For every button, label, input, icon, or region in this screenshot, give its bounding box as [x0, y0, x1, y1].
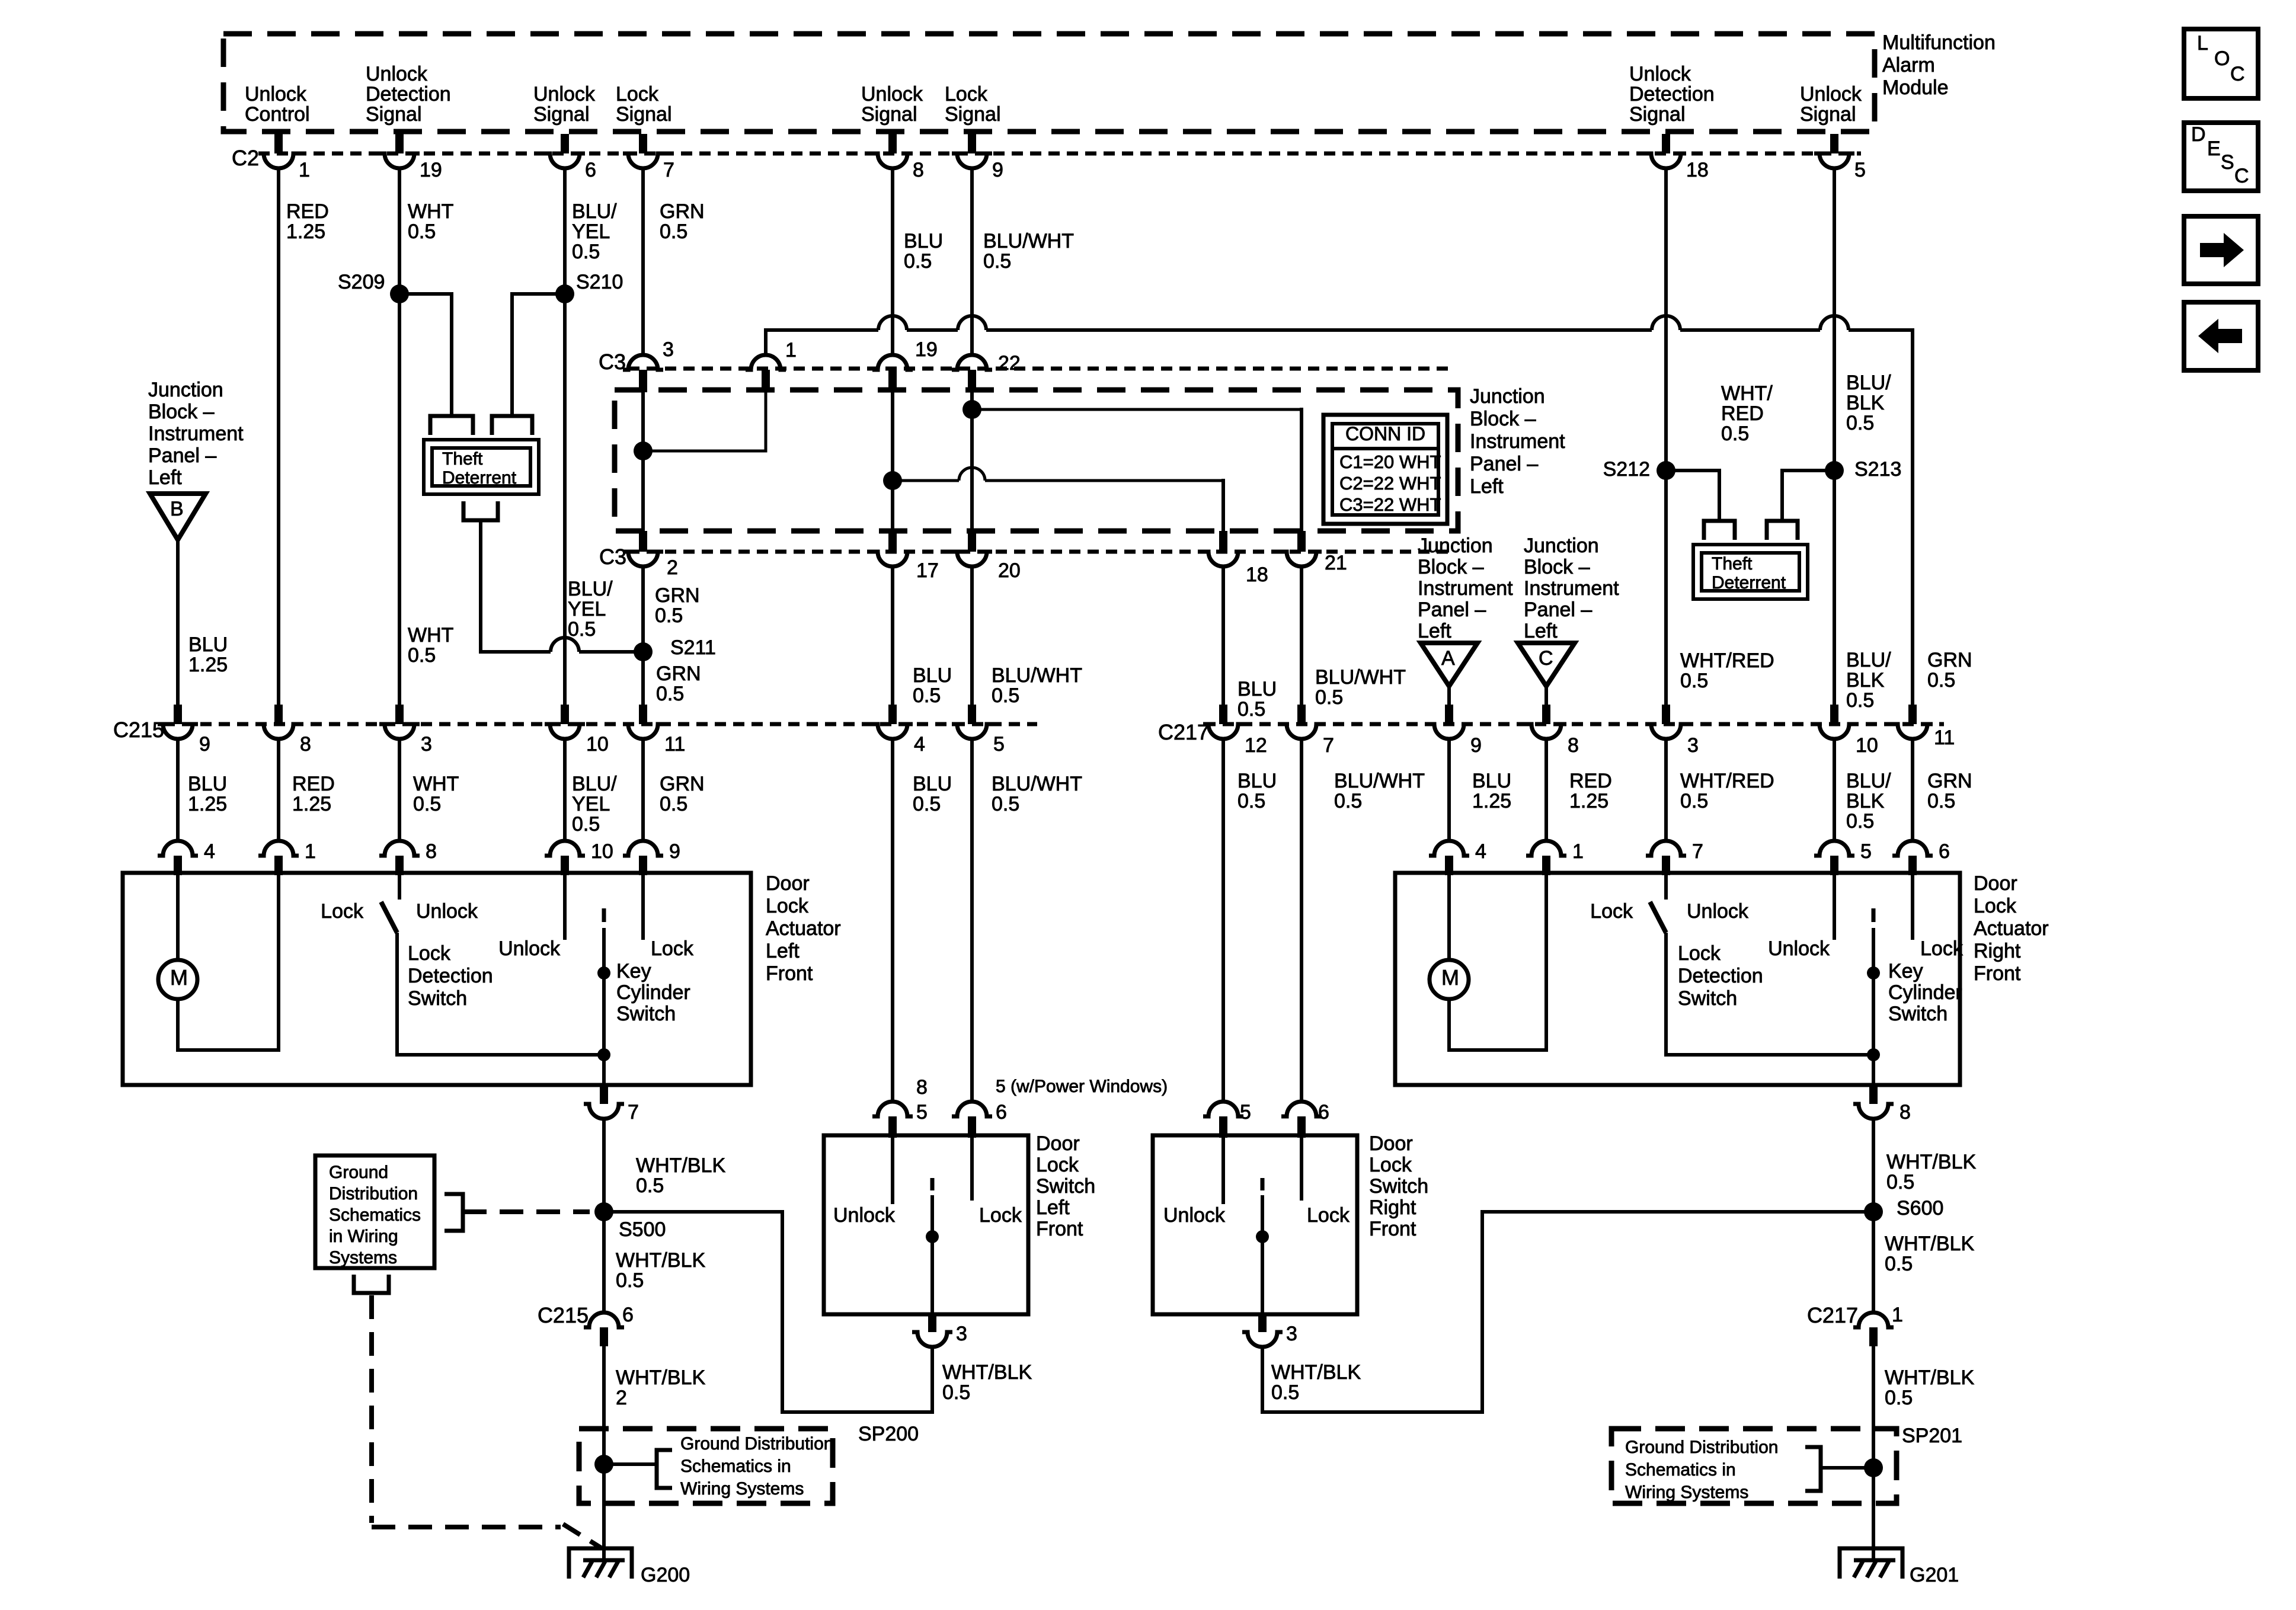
svg-text:C3: C3	[599, 545, 626, 569]
svg-text:3: 3	[1286, 1323, 1297, 1345]
svg-text:Lock: Lock	[1036, 1154, 1079, 1176]
svg-text:SP200: SP200	[858, 1423, 919, 1445]
svg-text:BLU/WHT: BLU/WHT	[1334, 770, 1425, 792]
svg-text:22: 22	[998, 352, 1021, 375]
svg-text:0.5: 0.5	[1237, 698, 1265, 721]
svg-text:0.5: 0.5	[636, 1174, 664, 1197]
connector C2 pin 6	[561, 134, 569, 153]
door lock actuator left front box	[123, 873, 751, 1085]
door lock switch left front box	[824, 1135, 1028, 1314]
svg-text:0.5: 0.5	[660, 793, 687, 815]
svg-text:2: 2	[667, 556, 678, 579]
svg-text:WHT/BLK: WHT/BLK	[1886, 1151, 1976, 1173]
wire BLU/WHT 0.5 to door lock switch R	[1300, 740, 1303, 1101]
svg-text:0.5: 0.5	[1886, 1171, 1914, 1193]
switch L unlock contact stub	[891, 1135, 894, 1204]
svg-text:BLU/: BLU/	[1846, 649, 1891, 671]
wire BLU 0.5 to door lock switch L	[891, 740, 894, 1101]
svg-text:Deterrent: Deterrent	[442, 468, 517, 488]
svg-text:C: C	[1539, 647, 1553, 670]
lock detection switch wire right	[1666, 933, 1873, 1055]
svg-text:0.5: 0.5	[1315, 686, 1343, 709]
svg-text:Door: Door	[1369, 1132, 1413, 1155]
junction dot on BLU/WHT wire	[962, 400, 981, 419]
svg-text:1.25: 1.25	[188, 654, 228, 676]
svg-text:10: 10	[1856, 734, 1878, 757]
connector C217 pin 9	[1445, 705, 1453, 724]
wire GRN inside junction block (pin3 to pin2)	[641, 390, 645, 531]
svg-text:19: 19	[915, 338, 938, 361]
svg-text:6: 6	[622, 1304, 634, 1326]
theft deterrent left bottom bracket	[463, 501, 498, 520]
svg-text:0.5: 0.5	[1846, 689, 1874, 712]
svg-text:A: A	[1441, 647, 1455, 670]
connector row C215 dotted line	[164, 722, 1037, 726]
wire H1 corner down to C3 pin 1	[764, 328, 768, 354]
svg-text:0.5: 0.5	[1237, 790, 1265, 812]
svg-text:Switch: Switch	[408, 987, 467, 1010]
SP200 junction dot	[594, 1455, 613, 1474]
wire WHT/BLK to G200	[602, 1346, 606, 1560]
svg-text:M: M	[170, 965, 188, 990]
connector C217 pin 10	[1830, 705, 1838, 724]
wire BLU/WHT inside junction block (pin22 down)	[970, 390, 974, 531]
svg-text:6: 6	[996, 1101, 1007, 1124]
door lock switch right front box	[1153, 1135, 1357, 1314]
actuator R pin 1 connector	[1526, 841, 1566, 856]
svg-text:WHT/BLK: WHT/BLK	[1885, 1366, 1974, 1389]
svg-text:Block –: Block –	[1524, 556, 1590, 578]
svg-text:3: 3	[421, 733, 432, 756]
svg-text:10: 10	[591, 840, 613, 863]
svg-text:Signal: Signal	[533, 103, 590, 126]
svg-text:G201: G201	[1910, 1564, 1959, 1586]
connector C2 pin 19	[395, 134, 404, 153]
svg-text:0.5: 0.5	[572, 241, 600, 263]
svg-text:5: 5	[993, 733, 1005, 756]
svg-text:Unlock: Unlock	[1163, 1204, 1226, 1227]
theft deterrent right box	[1693, 545, 1808, 599]
svg-text:Block –: Block –	[1418, 556, 1484, 578]
connector C2 pin 7	[639, 134, 647, 153]
svg-text:Actuator: Actuator	[766, 917, 841, 940]
svg-text:Lock: Lock	[1590, 900, 1633, 923]
svg-text:Signal: Signal	[366, 103, 422, 126]
connector C2 pin 18	[1662, 134, 1670, 153]
bump H1 over WHT/RED wire	[1652, 316, 1680, 330]
actuator R pin 4 connector	[1429, 841, 1469, 856]
svg-text:Right: Right	[1974, 940, 2021, 962]
connector C3 pin 2 (bottom row)	[639, 531, 647, 552]
connector C215 pin 3	[395, 705, 404, 724]
svg-text:GRN: GRN	[1927, 649, 1972, 671]
switch R pin 3 connector	[1258, 1314, 1267, 1332]
theft deterrent right bracket 1	[1704, 521, 1735, 540]
svg-text:BLU: BLU	[1237, 770, 1277, 792]
switch L pin 8/5 connector	[872, 1102, 913, 1116]
svg-text:BLU/: BLU/	[572, 200, 617, 223]
svg-text:WHT/RED: WHT/RED	[1680, 770, 1774, 792]
wire BLU/WHT 0.5 (C3 pin20 to C215 pin5)	[970, 567, 974, 705]
switch R pin 6 connector	[1281, 1102, 1322, 1116]
svg-text:17: 17	[916, 559, 939, 582]
svg-text:Detection: Detection	[1678, 965, 1763, 987]
dashed path to G200 (horizontal)	[372, 1525, 561, 1529]
svg-text:S213: S213	[1854, 458, 1901, 481]
theft deterrent left connector bracket 2	[492, 416, 532, 435]
svg-text:3: 3	[663, 338, 674, 361]
svg-text:9: 9	[199, 733, 210, 756]
wire BLU/YEL 0.5 (C2 pin6 to C215 pin10)	[563, 169, 567, 705]
svg-text:1.25: 1.25	[1569, 790, 1609, 812]
svg-text:Module: Module	[1882, 76, 1949, 99]
door lock actuator right front box	[1395, 873, 1960, 1085]
svg-text:BLU: BLU	[913, 664, 952, 687]
svg-text:BLU: BLU	[1472, 770, 1511, 792]
svg-text:WHT/BLK: WHT/BLK	[942, 1361, 1032, 1384]
connector C2 pin 9	[968, 134, 976, 153]
bump H1 over BLU wire	[878, 316, 907, 330]
actuator R pin 7 connector	[1646, 841, 1686, 856]
ground distribution reference box left	[315, 1156, 434, 1268]
connector C217 pin 12	[1219, 705, 1227, 724]
junction dot key cylinder bottom left	[597, 1048, 610, 1061]
wire BLU 1.25 to actuator L pin4	[176, 740, 180, 840]
svg-text:WHT: WHT	[408, 200, 453, 223]
wire S600 down to C217 pin1	[1872, 1212, 1875, 1312]
svg-text:Front: Front	[1974, 962, 2021, 985]
connector C3 pin 3 (top row)	[623, 355, 663, 370]
key cylinder switch right	[1872, 908, 1876, 922]
connector C3 pin 1 (top row)	[746, 355, 786, 370]
dashed link to S500	[463, 1209, 590, 1214]
wire S500 down to C215 pin6	[602, 1212, 606, 1312]
svg-text:0.5: 0.5	[1680, 790, 1708, 812]
svg-text:Door: Door	[766, 872, 810, 895]
svg-text:Control: Control	[245, 103, 310, 126]
motor M left	[158, 960, 197, 999]
svg-text:6: 6	[1939, 840, 1950, 863]
svg-text:Key: Key	[1888, 960, 1923, 982]
svg-text:CONN ID: CONN ID	[1345, 423, 1425, 444]
svg-text:C1=20 WHT: C1=20 WHT	[1339, 452, 1441, 472]
svg-text:WHT/: WHT/	[1721, 382, 1773, 405]
svg-text:Key: Key	[616, 960, 651, 982]
svg-text:Unlock: Unlock	[498, 937, 561, 960]
svg-text:BLK: BLK	[1846, 392, 1885, 414]
svg-text:8: 8	[1568, 734, 1579, 757]
wire RED 1.25 (C2 pin1 to C215 pin8)	[277, 169, 280, 705]
svg-text:Front: Front	[766, 962, 813, 985]
svg-text:BLU/WHT: BLU/WHT	[1315, 666, 1406, 689]
svg-text:0.5: 0.5	[992, 793, 1019, 815]
wire BLU/YEL 0.5 to actuator L pin10	[563, 740, 567, 840]
svg-text:0.5: 0.5	[1846, 810, 1874, 833]
wire WHT 0.5 to actuator L pin8	[398, 740, 401, 840]
svg-text:WHT: WHT	[413, 773, 459, 795]
actuator L pin 9 connector	[623, 841, 663, 856]
wire WHT/BLK 0.5 from switch L pin3	[604, 1212, 932, 1412]
connector row C3 (bottom) dotted line	[628, 550, 1455, 554]
svg-text:8: 8	[916, 1076, 928, 1099]
wire branch S210 to theft deterrent left	[512, 294, 565, 415]
svg-text:Junction: Junction	[1418, 534, 1493, 557]
svg-text:Left: Left	[1470, 475, 1504, 498]
junction dot key cylinder bottom right	[1867, 1048, 1880, 1061]
svg-text:12: 12	[1245, 734, 1267, 757]
connector C217 pin 8	[1542, 705, 1550, 724]
lock detection switch blade left	[381, 902, 397, 933]
svg-text:0.5: 0.5	[913, 684, 941, 707]
svg-text:2: 2	[616, 1387, 627, 1409]
connector C217 pin 3	[1662, 705, 1670, 724]
svg-text:Unlock: Unlock	[833, 1204, 896, 1227]
svg-text:RED: RED	[1569, 770, 1612, 792]
svg-text:Cylinder: Cylinder	[1888, 981, 1962, 1004]
svg-text:1: 1	[1892, 1304, 1903, 1326]
svg-text:M: M	[1441, 965, 1459, 990]
connector C217 pin 7	[1297, 705, 1306, 724]
svg-text:GRN: GRN	[1927, 770, 1972, 792]
wire H2 inside block (to pin 21)	[972, 408, 1302, 411]
svg-text:Switch: Switch	[616, 1003, 676, 1025]
splice S600	[1864, 1202, 1883, 1221]
key cylinder switch left	[602, 908, 606, 922]
svg-text:Switch: Switch	[1369, 1175, 1428, 1198]
svg-text:BLU: BLU	[913, 773, 952, 795]
theft deterrent left box	[424, 440, 539, 494]
svg-text:YEL: YEL	[572, 793, 610, 815]
svg-text:1: 1	[299, 159, 310, 181]
svg-text:BLU/WHT: BLU/WHT	[983, 230, 1074, 252]
svg-text:C3: C3	[599, 350, 626, 374]
svg-text:S500: S500	[619, 1218, 666, 1241]
svg-text:Alarm: Alarm	[1882, 54, 1935, 76]
branch S212 to theft deterrent right	[1666, 470, 1719, 520]
unlock contact stub right (pin 5)	[1833, 873, 1836, 940]
svg-text:9: 9	[669, 840, 680, 863]
svg-text:Detection: Detection	[408, 965, 493, 987]
svg-text:Theft: Theft	[1712, 554, 1753, 574]
svg-text:Panel –: Panel –	[1470, 453, 1538, 475]
lock detection switch stub (pin 7) right	[1664, 873, 1668, 900]
svg-text:3: 3	[956, 1323, 967, 1345]
splice S212	[1657, 461, 1675, 480]
switch L lock contact stub	[970, 1135, 974, 1201]
svg-text:0.5: 0.5	[942, 1381, 970, 1404]
svg-text:Unlock: Unlock	[1800, 83, 1862, 105]
svg-text:4: 4	[914, 733, 925, 756]
svg-text:1.25: 1.25	[188, 793, 227, 815]
connector C215 pin 10	[561, 705, 569, 724]
svg-text:S: S	[2221, 151, 2234, 174]
svg-text:Lock: Lock	[408, 942, 451, 965]
svg-text:Signal: Signal	[1629, 103, 1686, 126]
actuator left pin 7 connector	[602, 1055, 606, 1085]
svg-text:0.5: 0.5	[992, 684, 1019, 707]
connector row C217 dotted line	[1204, 722, 1944, 726]
connector row C3 (top) dotted line	[628, 367, 1455, 371]
motor M right	[1430, 960, 1469, 999]
svg-text:Signal: Signal	[945, 103, 1001, 126]
svg-text:Panel –: Panel –	[1524, 598, 1592, 621]
svg-text:7: 7	[663, 159, 674, 181]
svg-text:8: 8	[1900, 1101, 1911, 1124]
wire H2 corner down to pin 21	[1300, 408, 1303, 531]
svg-text:Instrument: Instrument	[1524, 577, 1619, 600]
svg-text:Signal: Signal	[861, 103, 917, 126]
connector C215 pin 11	[639, 705, 647, 724]
splice S210	[555, 284, 574, 303]
svg-text:1.25: 1.25	[286, 220, 325, 243]
svg-text:Lock: Lock	[979, 1204, 1022, 1227]
svg-text:BLU: BLU	[188, 633, 228, 656]
svg-text:RED: RED	[286, 200, 329, 223]
wire RED 1.25 to actuator R pin1	[1544, 740, 1548, 840]
svg-text:Instrument: Instrument	[1470, 430, 1565, 453]
wire BLU 0.5 to door lock switch R	[1221, 740, 1225, 1101]
splitter SP201 dashed box	[1611, 1429, 1897, 1503]
wire WHT/BLK 0.5 from switch R pin3	[1262, 1212, 1873, 1412]
svg-text:BLU/: BLU/	[572, 773, 617, 795]
ground G201 symbol	[1840, 1548, 1902, 1579]
svg-text:0.5: 0.5	[1680, 670, 1708, 692]
svg-text:WHT/BLK: WHT/BLK	[1271, 1361, 1361, 1384]
junction block dashed box	[615, 390, 1458, 531]
svg-text:Switch: Switch	[1678, 987, 1737, 1010]
svg-text:Junction: Junction	[1470, 385, 1545, 408]
legend left arrow box	[2184, 302, 2258, 370]
branch S213 to theft deterrent right	[1782, 470, 1834, 520]
wire theft deterrent left to S211	[481, 520, 551, 652]
svg-text:RED: RED	[1721, 402, 1764, 425]
horizontal wire H1 (C3 pin1 to C217 pin11 GRN)	[766, 328, 878, 332]
svg-text:Lock: Lock	[766, 895, 809, 917]
svg-text:0.5: 0.5	[413, 793, 441, 815]
svg-text:BLK: BLK	[1846, 790, 1885, 812]
svg-text:GRN: GRN	[655, 584, 700, 607]
CONN ID table outer box	[1323, 415, 1447, 524]
svg-text:Lock: Lock	[1920, 937, 1964, 960]
svg-text:Front: Front	[1369, 1218, 1416, 1240]
legend right arrow box	[2184, 216, 2258, 284]
wire branch S209 to theft deterrent left	[399, 294, 452, 415]
connector C2 pin 1	[274, 134, 283, 153]
svg-text:Left: Left	[766, 940, 800, 962]
svg-text:GRN: GRN	[656, 662, 701, 685]
svg-text:D: D	[2191, 123, 2206, 146]
svg-text:21: 21	[1325, 552, 1347, 574]
switch R arm	[1261, 1178, 1265, 1190]
wire BLU inside junction block (pin19 down)	[891, 390, 894, 531]
svg-text:3: 3	[1687, 734, 1699, 757]
svg-text:Distribution: Distribution	[329, 1184, 418, 1204]
svg-text:Ground Distribution: Ground Distribution	[1625, 1438, 1778, 1457]
svg-text:Junction: Junction	[1524, 534, 1599, 557]
unlock contact stub left (pin 10)	[563, 873, 567, 940]
svg-text:BLU: BLU	[1237, 678, 1277, 700]
svg-text:0.5: 0.5	[1927, 790, 1955, 812]
svg-text:Door: Door	[1974, 872, 2017, 895]
svg-text:20: 20	[998, 559, 1021, 582]
svg-text:Unlock: Unlock	[1768, 937, 1830, 960]
actuator R pin 5 connector	[1814, 841, 1854, 856]
svg-text:C215: C215	[538, 1303, 589, 1327]
svg-text:BLU/WHT: BLU/WHT	[992, 773, 1082, 795]
actuator L pin 1 connector	[258, 841, 299, 856]
lock contact stub right (pin 6)	[1911, 873, 1914, 940]
wire GRN 0.5 (C2 pin7 to C3 pin3)	[641, 169, 645, 354]
svg-text:0.5: 0.5	[1885, 1387, 1913, 1409]
switch R pin 5 connector	[1203, 1102, 1243, 1116]
svg-text:Right: Right	[1369, 1196, 1416, 1219]
svg-text:0.5: 0.5	[656, 683, 684, 705]
svg-text:0.5: 0.5	[408, 644, 436, 667]
svg-text:0.5: 0.5	[616, 1269, 644, 1292]
svg-text:Multifunction: Multifunction	[1882, 31, 1996, 54]
svg-text:E: E	[2207, 137, 2221, 160]
svg-text:BLU: BLU	[188, 773, 227, 795]
wire RED 1.25 to actuator L pin1	[277, 740, 280, 840]
dashed path to G200 (diagonal end)	[563, 1524, 601, 1548]
svg-text:Lock: Lock	[1369, 1154, 1412, 1176]
svg-text:0.5: 0.5	[1334, 790, 1362, 812]
CONN ID table divider	[1332, 447, 1438, 450]
svg-text:1: 1	[305, 840, 316, 863]
svg-text:Schematics: Schematics	[329, 1205, 421, 1225]
svg-text:Unlock: Unlock	[1687, 900, 1749, 923]
svg-text:Block –: Block –	[148, 401, 215, 423]
svg-text:Unlock: Unlock	[416, 900, 478, 923]
svg-text:0.5: 0.5	[904, 250, 932, 273]
svg-text:Unlock: Unlock	[533, 83, 596, 105]
svg-text:Lock: Lock	[616, 83, 659, 105]
svg-text:9: 9	[992, 159, 1003, 181]
motor loop wire right	[1449, 873, 1546, 1050]
svg-text:Lock: Lock	[945, 83, 988, 105]
svg-text:GRN: GRN	[660, 200, 705, 223]
svg-text:YEL: YEL	[568, 598, 606, 620]
ground G200 symbol	[569, 1548, 632, 1579]
connector C217 pin 1 inline	[1853, 1313, 1894, 1327]
svg-text:Lock: Lock	[1678, 942, 1721, 965]
lock detection switch blade right	[1650, 902, 1666, 933]
svg-text:0.5: 0.5	[913, 793, 941, 815]
connector C2 pin 5	[1830, 134, 1838, 153]
connector C215 pin 5	[968, 705, 976, 724]
svg-text:8: 8	[913, 159, 924, 181]
svg-text:Detection: Detection	[1629, 83, 1715, 105]
svg-text:Wiring Systems: Wiring Systems	[1625, 1483, 1748, 1502]
switch R unlock contact stub	[1221, 1135, 1225, 1204]
wire WHT/BLK 0.5 below pin 8	[1872, 1119, 1875, 1312]
svg-text:Left: Left	[1036, 1196, 1070, 1219]
svg-text:Schematics in: Schematics in	[1625, 1460, 1736, 1480]
actuator L pin 8 connector	[379, 841, 420, 856]
svg-text:7: 7	[1692, 840, 1703, 863]
svg-text:Lock: Lock	[321, 900, 364, 923]
svg-text:11: 11	[1934, 726, 1955, 749]
svg-text:Signal: Signal	[1800, 103, 1856, 126]
svg-text:5: 5	[916, 1101, 928, 1124]
svg-text:5: 5	[1240, 1101, 1251, 1124]
wire WHT/BLK 0.5 below pin 7	[602, 1119, 606, 1312]
triangle connector B	[150, 494, 206, 540]
svg-text:0.5: 0.5	[660, 220, 687, 243]
wire H1 right corner down (GRN 0.5)	[1911, 328, 1914, 705]
wire WHT/RED 0.5 to actuator R pin7	[1664, 740, 1668, 840]
svg-text:Panel –: Panel –	[1418, 598, 1486, 621]
